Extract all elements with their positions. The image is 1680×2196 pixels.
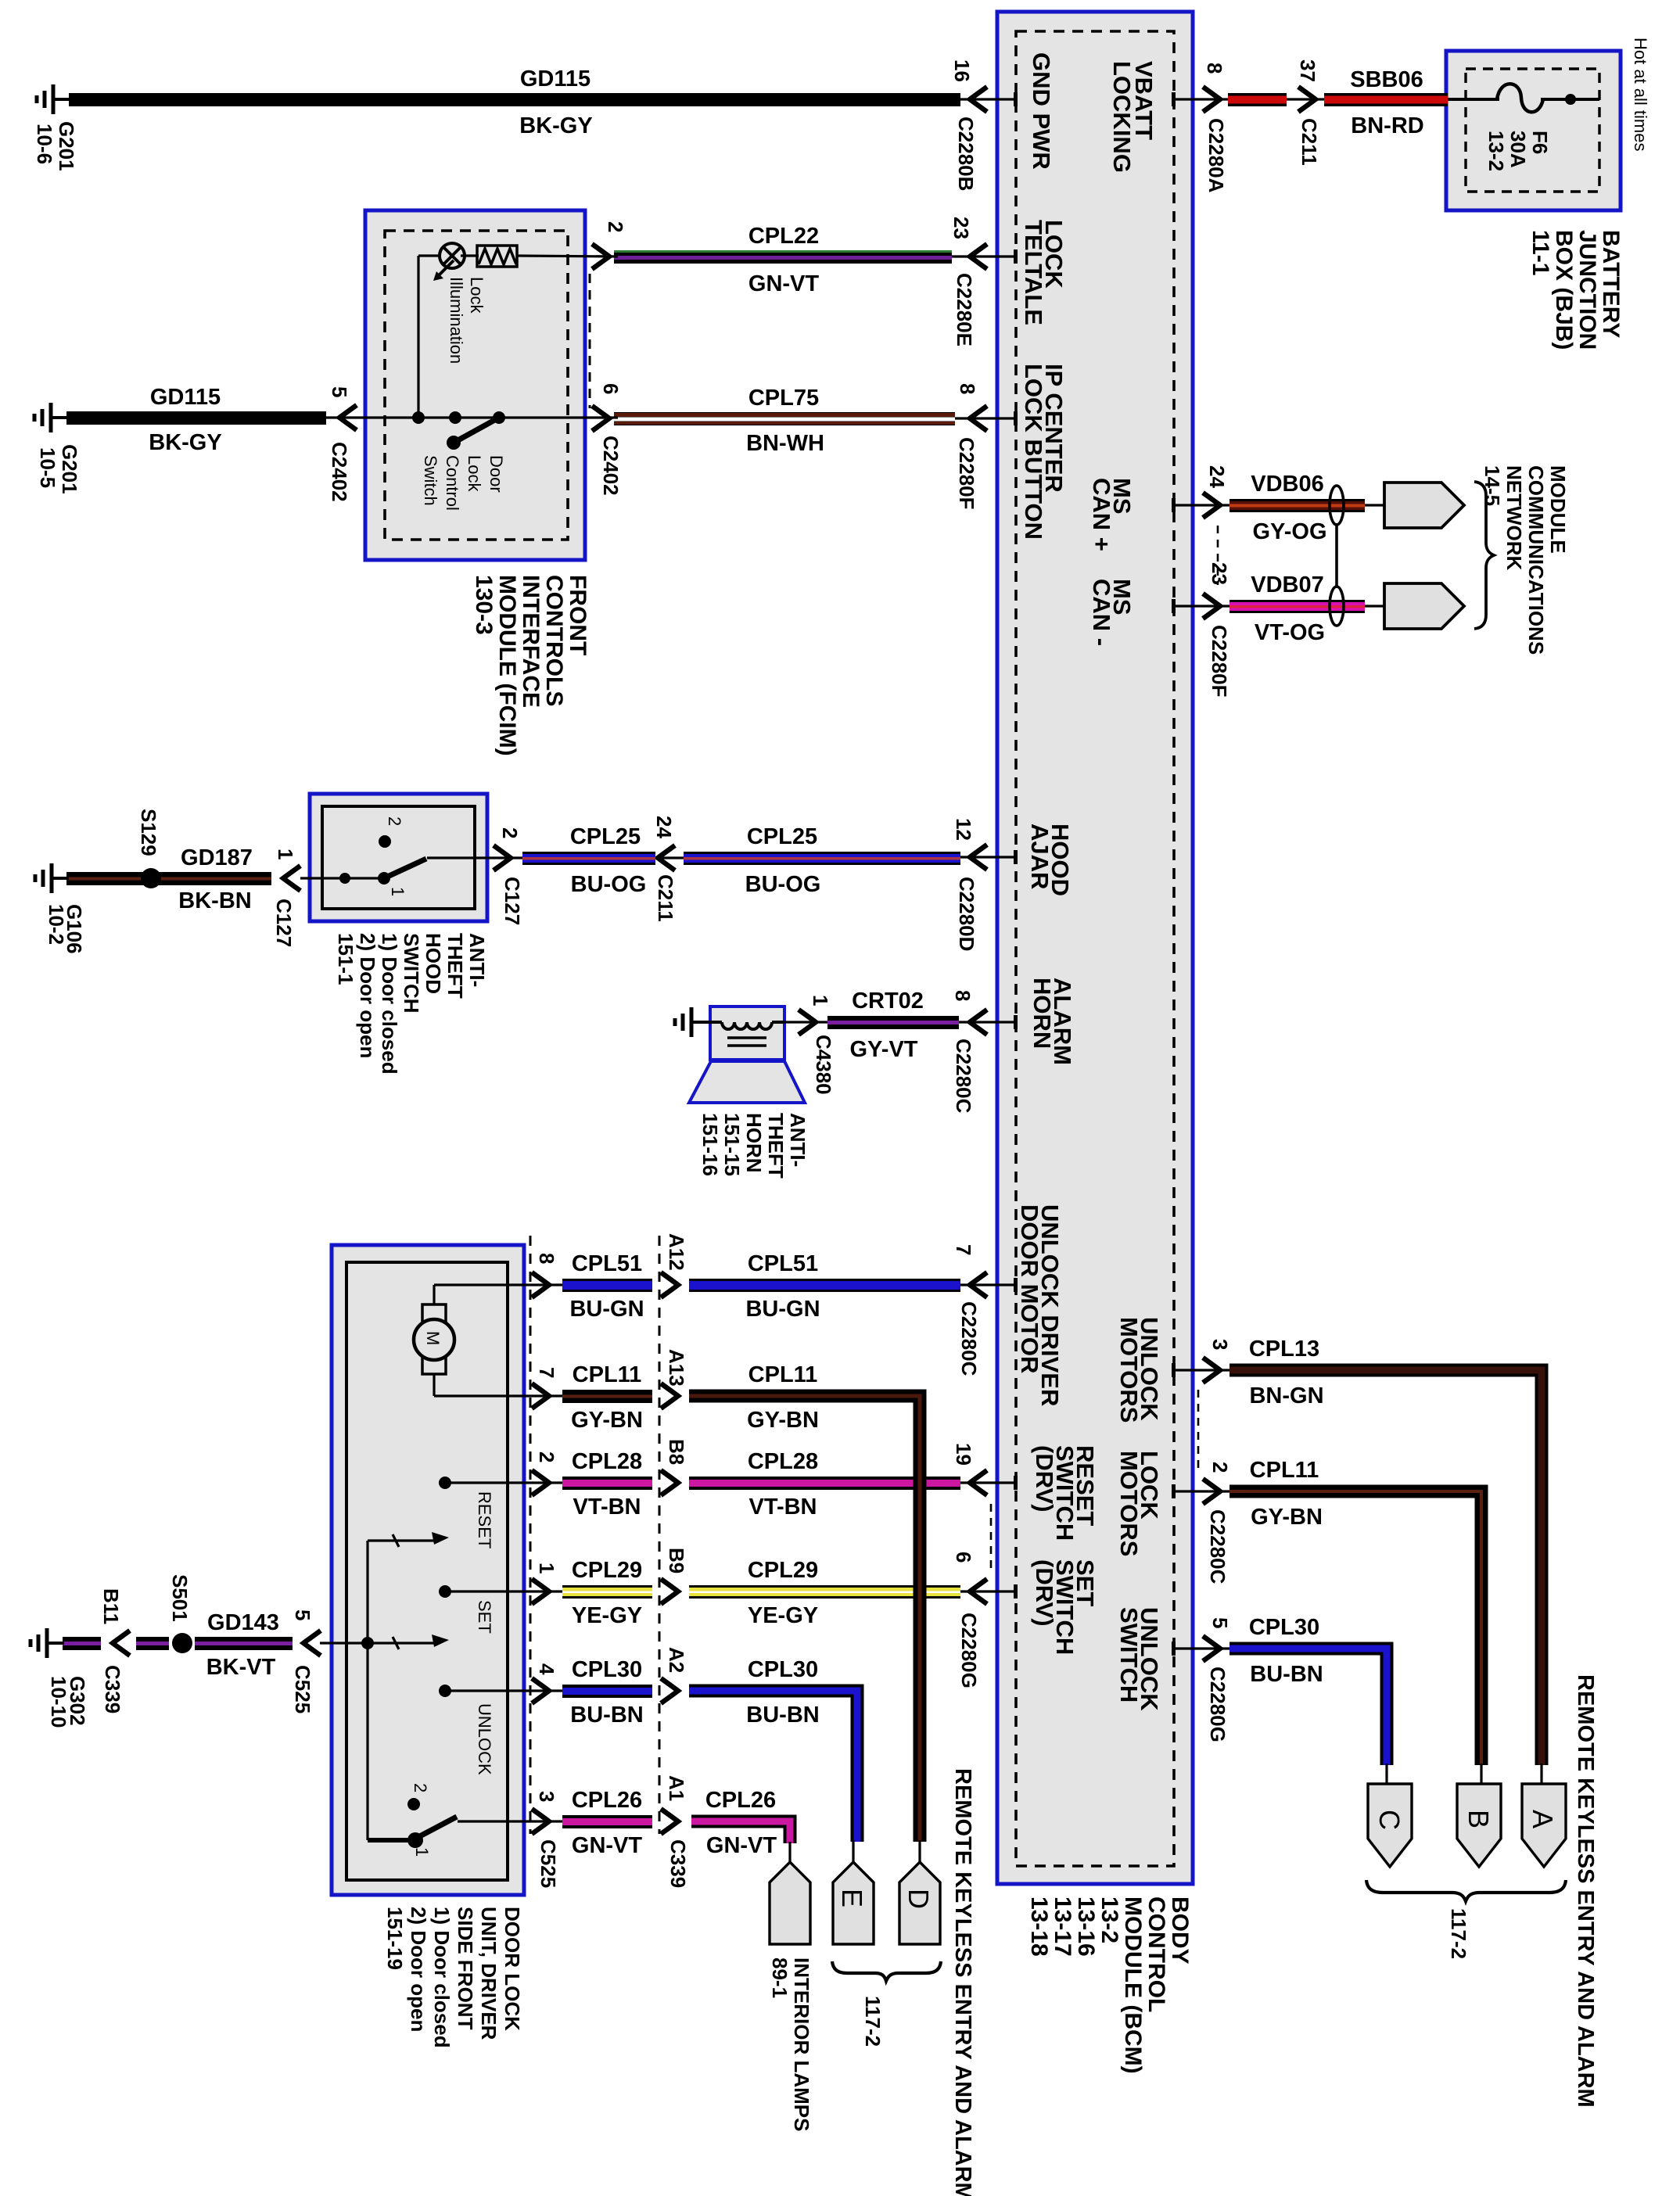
- svg-text:INTERFACE: INTERFACE: [518, 575, 544, 708]
- interior lamps pod: [788, 1842, 791, 1864]
- dashed C2280G link: [990, 1504, 993, 1570]
- svg-text:13-16: 13-16: [1073, 1896, 1099, 1957]
- svg-text:BN-RD: BN-RD: [1351, 113, 1423, 138]
- svg-text:CPL22: CPL22: [748, 224, 819, 249]
- svg-text:CPL30: CPL30: [572, 1657, 642, 1682]
- pin 3 UNLOCK MOTORS: [1172, 1369, 1229, 1371]
- wire CPL30 BU-BN elbow down to C: [1229, 1649, 1387, 1765]
- wire CPL13 BN-GN elbow down to A: [1229, 1370, 1542, 1765]
- svg-text:CPL29: CPL29: [572, 1558, 642, 1583]
- svg-text:GN-VT: GN-VT: [706, 1833, 777, 1858]
- pin 16 C2280B: [960, 98, 1016, 100]
- svg-text:YE-GY: YE-GY: [572, 1603, 642, 1628]
- svg-text:BN-GN: BN-GN: [1249, 1383, 1323, 1408]
- svg-text:2: 2: [498, 827, 522, 838]
- svg-text:CPL25: CPL25: [570, 824, 641, 849]
- svg-text:CRT02: CRT02: [852, 989, 924, 1014]
- svg-text:CPL29: CPL29: [748, 1558, 818, 1583]
- pin 23 C2280E LOCK TELTALE: [952, 255, 1016, 257]
- svg-text:F6: F6: [1528, 131, 1552, 154]
- svg-text:C211: C211: [654, 874, 677, 922]
- svg-text:BU-BN: BU-BN: [746, 1703, 819, 1728]
- svg-text:A13: A13: [665, 1349, 688, 1387]
- label: Hot at all times: [1631, 38, 1650, 152]
- svg-text:GN-VT: GN-VT: [572, 1833, 643, 1858]
- wire CPL51 BU-GN (1): [562, 1279, 652, 1292]
- svg-text:ANTI-: ANTI-: [786, 1113, 809, 1167]
- svg-text:COMMUNICATIONS: COMMUNICATIONS: [1524, 465, 1548, 655]
- svg-text:C2280A: C2280A: [1204, 118, 1228, 193]
- label: battery junction box: [1598, 230, 1624, 338]
- svg-text:5: 5: [291, 1609, 314, 1620]
- svg-text:2: 2: [535, 1451, 558, 1462]
- svg-text:NETWORK: NETWORK: [1502, 465, 1526, 571]
- pin 7 C2280C: [960, 1283, 1016, 1286]
- svg-text:10-6: 10-6: [33, 124, 56, 164]
- svg-text:C339: C339: [101, 1665, 124, 1713]
- wire CPL25 BU-OG (2): [684, 852, 960, 865]
- lock illumination lamp: [440, 243, 465, 268]
- BCM module box: [997, 12, 1193, 1884]
- wire CPL51 BU-GN (2): [689, 1279, 960, 1292]
- svg-text:C: C: [1373, 1810, 1405, 1830]
- network pod 1: [1365, 504, 1384, 506]
- svg-text:B9: B9: [665, 1548, 688, 1573]
- dashed C2280C link: [1197, 1390, 1200, 1472]
- horn ground: [691, 1021, 709, 1024]
- svg-text:INTERIOR LAMPS: INTERIOR LAMPS: [790, 1957, 813, 2131]
- svg-text:A2: A2: [665, 1647, 688, 1673]
- svg-text:2: 2: [385, 816, 404, 826]
- svg-text:BU-GN: BU-GN: [569, 1297, 644, 1322]
- svg-text:A: A: [1527, 1810, 1559, 1828]
- svg-text:G201: G201: [58, 444, 81, 494]
- svg-text:13-2: 13-2: [1097, 1896, 1122, 1943]
- splice S501: [172, 1633, 192, 1653]
- svg-text:130-3: 130-3: [471, 575, 497, 635]
- svg-text:37: 37: [1296, 59, 1319, 82]
- svg-text:GD115: GD115: [520, 66, 591, 91]
- svg-text:BU-BN: BU-BN: [1250, 1662, 1323, 1687]
- brace: [1474, 482, 1494, 629]
- wire CPL29 YE-GY (1): [562, 1585, 652, 1599]
- svg-text:C211: C211: [1298, 118, 1321, 166]
- svg-text:1: 1: [535, 1563, 558, 1573]
- horn coil: [693, 1021, 722, 1024]
- svg-text:CONTROLS: CONTROLS: [541, 575, 567, 706]
- svg-text:REMOTE KEYLESS ENTRY AND ALARM: REMOTE KEYLESS ENTRY AND ALARM: [950, 1768, 975, 2196]
- svg-text:10-5: 10-5: [36, 447, 59, 488]
- svg-text:30A: 30A: [1506, 131, 1530, 168]
- connector C339 A12: [661, 1272, 678, 1297]
- ground G302 10-10: [47, 1642, 64, 1645]
- svg-text:16: 16: [950, 59, 974, 82]
- svg-text:89-1: 89-1: [768, 1957, 792, 1998]
- svg-text:SBB06: SBB06: [1350, 67, 1423, 92]
- splice S129: [141, 868, 161, 888]
- door lock unit label: [501, 1907, 524, 2031]
- svg-text:A1: A1: [665, 1775, 688, 1801]
- connector C211 pin 24: [655, 856, 684, 859]
- label remote keyless (bottom): [950, 1768, 975, 2196]
- svg-text:1) Door closed: 1) Door closed: [378, 933, 401, 1075]
- hood switch internals: [300, 877, 384, 879]
- svg-text:B: B: [1463, 1810, 1495, 1828]
- svg-text:151-1: 151-1: [334, 933, 357, 985]
- svg-text:GD115: GD115: [150, 385, 221, 410]
- connector C211 pin 37: [1287, 98, 1326, 100]
- svg-text:8: 8: [956, 383, 979, 394]
- svg-text:GY-BN: GY-BN: [747, 1408, 819, 1433]
- svg-text:SIDE FRONT: SIDE FRONT: [454, 1907, 477, 2030]
- svg-text:S129: S129: [137, 809, 160, 856]
- svg-text:C2280B: C2280B: [954, 117, 978, 191]
- door unit pin 3 C525: [458, 1820, 562, 1822]
- svg-text:CPL26: CPL26: [572, 1788, 642, 1813]
- svg-text:B8: B8: [665, 1439, 688, 1465]
- svg-text:BU-OG: BU-OG: [745, 872, 821, 897]
- svg-text:10-2: 10-2: [45, 904, 68, 945]
- FCIM inner dashed box: [385, 231, 568, 540]
- svg-text:MODULE: MODULE: [1546, 465, 1570, 554]
- wire CPL25 BU-OG (1): [522, 852, 655, 865]
- svg-text:C2280D: C2280D: [955, 877, 978, 951]
- svg-text:Lock: Lock: [465, 455, 484, 492]
- svg-text:LOCKING: LOCKING: [1108, 61, 1136, 173]
- hood switch label: [465, 933, 489, 987]
- svg-text:Switch: Switch: [421, 455, 440, 506]
- svg-text:2: 2: [604, 221, 627, 232]
- svg-text:1) Door closed: 1) Door closed: [430, 1907, 454, 2048]
- svg-text:CPL11: CPL11: [573, 1362, 642, 1387]
- hood switch pin 2 C127: [427, 856, 522, 859]
- FCIM pin 6: [592, 406, 609, 431]
- svg-text:2: 2: [1208, 1462, 1232, 1473]
- horn pin 1 C4380: [784, 1021, 827, 1023]
- svg-text:23: 23: [1208, 562, 1231, 585]
- svg-text:D: D: [903, 1889, 935, 1909]
- brace 117-2 (ABC): [1366, 1880, 1566, 1901]
- door unit common bus: [320, 1642, 368, 1644]
- svg-text:CPL25: CPL25: [747, 824, 817, 849]
- wire CPL29 YE-GY (2): [689, 1585, 960, 1599]
- wire CPL75 BN-WH: [614, 412, 955, 425]
- pin 6 SET SWITCH: [960, 1590, 1016, 1592]
- FCIM module box: [365, 210, 585, 560]
- svg-text:14-5: 14-5: [1481, 465, 1504, 506]
- svg-text:151-15: 151-15: [720, 1113, 744, 1176]
- FCIM pin 2 C2402: [517, 256, 618, 257]
- BCM label: [1167, 1896, 1193, 1965]
- svg-text:C2280E: C2280E: [953, 273, 976, 346]
- svg-text:BU-GN: BU-GN: [745, 1297, 820, 1322]
- svg-text:7: 7: [952, 1244, 975, 1255]
- svg-text:5: 5: [1208, 1617, 1232, 1628]
- svg-text:BK-BN: BK-BN: [178, 888, 251, 913]
- svg-text:G201: G201: [55, 121, 78, 171]
- svg-text:117-2: 117-2: [1447, 1908, 1470, 1959]
- svg-text:HORN: HORN: [1028, 978, 1056, 1049]
- FCIM pin 5 C2402: [326, 416, 422, 418]
- svg-text:C2280G: C2280G: [1206, 1667, 1229, 1742]
- svg-text:CPL13: CPL13: [1249, 1337, 1319, 1362]
- svg-text:M: M: [423, 1331, 443, 1345]
- pin 8 C2280F: [955, 417, 1016, 419]
- svg-text:SET: SET: [475, 1600, 494, 1634]
- svg-text:2: 2: [411, 1783, 430, 1792]
- svg-text:DOOR MOTOR: DOOR MOTOR: [1016, 1204, 1043, 1373]
- svg-text:THEFT: THEFT: [443, 933, 467, 999]
- svg-text:HORN: HORN: [742, 1113, 766, 1173]
- svg-text:UNIT, DRIVER: UNIT, DRIVER: [477, 1907, 501, 2040]
- fuse F6 30A 13-2: [1448, 98, 1499, 101]
- wire CRT02 GY-VT: [827, 1016, 959, 1029]
- wire CPL26 GN-VT (2) elbow: [691, 1821, 790, 1843]
- svg-text:UNLOCK: UNLOCK: [475, 1703, 494, 1775]
- svg-text:MODULE (FCIM): MODULE (FCIM): [494, 575, 520, 756]
- svg-text:(DRV): (DRV): [1031, 1559, 1058, 1627]
- svg-text:19: 19: [952, 1443, 975, 1466]
- svg-text:11-1: 11-1: [1527, 230, 1553, 275]
- svg-text:CONTROL: CONTROL: [1143, 1896, 1169, 2012]
- wire CPL11 GY-BN (1): [562, 1390, 652, 1403]
- svg-text:REMOTE KEYLESS ENTRY AND ALARM: REMOTE KEYLESS ENTRY AND ALARM: [1573, 1674, 1598, 2108]
- pin 19 RESET SWITCH: [960, 1481, 1016, 1484]
- door unit RESET contact: [445, 1481, 562, 1484]
- svg-text:1: 1: [388, 887, 407, 896]
- svg-text:10-10: 10-10: [47, 1676, 70, 1728]
- svg-text:DOOR LOCK: DOOR LOCK: [501, 1907, 524, 2031]
- pin 2 LOCK MOTORS: [1172, 1490, 1229, 1492]
- svg-text:GY-BN: GY-BN: [1251, 1505, 1323, 1530]
- wire CPL28 VT-BN (2): [689, 1477, 960, 1490]
- svg-text:RESET: RESET: [475, 1491, 494, 1548]
- svg-text:GND PWR: GND PWR: [1028, 52, 1055, 170]
- svg-text:6: 6: [599, 383, 623, 394]
- svg-text:ANTI-: ANTI-: [465, 933, 489, 987]
- svg-text:13-18: 13-18: [1026, 1896, 1052, 1957]
- svg-text:23: 23: [949, 217, 973, 239]
- door unit UNLOCK contact: [445, 1689, 562, 1692]
- svg-text:SWITCH: SWITCH: [400, 933, 423, 1014]
- svg-text:VT-OG: VT-OG: [1255, 620, 1325, 645]
- svg-text:C2402: C2402: [599, 436, 623, 496]
- wire CPL30 BU-BN (1): [562, 1685, 652, 1698]
- svg-text:LOCK BUTTON: LOCK BUTTON: [1020, 364, 1047, 540]
- svg-text:Door: Door: [486, 455, 506, 493]
- ground G106 10-2: [52, 877, 69, 880]
- svg-text:8: 8: [951, 990, 975, 1001]
- twisted pair symbol: [1330, 486, 1344, 525]
- C2402 dashed link: [589, 274, 591, 408]
- svg-text:3: 3: [1208, 1339, 1232, 1350]
- svg-text:VDB06: VDB06: [1251, 472, 1324, 497]
- svg-text:151-19: 151-19: [383, 1907, 407, 1970]
- connector pod E: [852, 1840, 854, 1864]
- blade contacts 1 / 2: [407, 1832, 423, 1848]
- svg-text:C339: C339: [666, 1839, 690, 1888]
- svg-text:YE-GY: YE-GY: [748, 1603, 818, 1628]
- svg-text:Hot at all times: Hot at all times: [1631, 38, 1650, 152]
- svg-text:THEFT: THEFT: [764, 1113, 788, 1179]
- svg-text:BK-GY: BK-GY: [149, 430, 221, 455]
- wire segment: [136, 1637, 169, 1650]
- BCM inner dashed box: [1016, 31, 1174, 1866]
- wire GD143 BK-VT: [195, 1637, 293, 1650]
- svg-text:S501: S501: [168, 1574, 192, 1622]
- wire CPL26 GN-VT (1): [562, 1815, 652, 1828]
- svg-text:TELTALE: TELTALE: [1020, 220, 1047, 325]
- dashed C525 line: [529, 1236, 532, 1834]
- svg-text:CPL51: CPL51: [748, 1251, 818, 1276]
- svg-text:CPL75: CPL75: [748, 386, 819, 411]
- svg-text:C2280C: C2280C: [1206, 1509, 1229, 1584]
- svg-text:A12: A12: [665, 1233, 688, 1271]
- svg-text:3: 3: [535, 1791, 558, 1802]
- svg-text:B11: B11: [99, 1588, 123, 1624]
- brace 117-2 (DE): [832, 1961, 941, 1981]
- svg-text:13-17: 13-17: [1050, 1896, 1075, 1957]
- wire CPL30 BU-BN (2) elbow down to E: [689, 1691, 857, 1842]
- dashed C339 line: [659, 1236, 661, 1834]
- ground G201 10-6: [53, 98, 70, 101]
- ground G201 10-5: [51, 416, 68, 419]
- svg-text:5: 5: [328, 386, 351, 397]
- connector C339 B11: [113, 1631, 130, 1656]
- svg-text:E: E: [836, 1889, 868, 1907]
- svg-text:FRONT: FRONT: [565, 575, 591, 655]
- svg-text:BOX (BJB): BOX (BJB): [1551, 230, 1577, 350]
- svg-text:24: 24: [652, 816, 676, 838]
- svg-text:1: 1: [274, 849, 297, 859]
- wire SBB06 BN-RD: [1324, 93, 1448, 106]
- svg-text:GY-BN: GY-BN: [571, 1408, 643, 1433]
- connector pod A: [1540, 1764, 1542, 1785]
- lock illumination resistor: [477, 246, 517, 267]
- svg-text:Control: Control: [443, 455, 462, 511]
- door unit SET contact: [445, 1590, 562, 1592]
- svg-text:BK-GY: BK-GY: [519, 113, 592, 138]
- svg-text:C525: C525: [537, 1839, 560, 1888]
- connector C339 B8: [661, 1470, 678, 1495]
- svg-text:CPL11: CPL11: [1250, 1458, 1319, 1483]
- wire segment to ground: [63, 1637, 101, 1650]
- svg-text:SWITCH: SWITCH: [1115, 1607, 1143, 1703]
- svg-text:CPL30: CPL30: [1249, 1615, 1319, 1640]
- label remote keyless (right): [1573, 1674, 1598, 2108]
- anti-theft hood switch box: [310, 794, 487, 921]
- door unit pin 7: [434, 1394, 562, 1397]
- svg-text:1: 1: [412, 1847, 432, 1857]
- svg-text:HOOD: HOOD: [422, 933, 445, 994]
- pin 5 UNLOCK SWITCH: [1172, 1647, 1229, 1649]
- svg-text:CAN -: CAN -: [1088, 579, 1115, 646]
- svg-text:C4380: C4380: [812, 1035, 835, 1095]
- pin 12 C2280D HOOD AJAR: [960, 856, 1016, 858]
- svg-text:GY-OG: GY-OG: [1252, 519, 1326, 544]
- wire CPL22 GN-VT: [614, 250, 952, 264]
- svg-text:C2280C: C2280C: [952, 1039, 975, 1114]
- svg-text:151-16: 151-16: [698, 1113, 722, 1176]
- svg-text:VT-BN: VT-BN: [573, 1494, 641, 1520]
- connector C339 A2: [661, 1678, 678, 1703]
- svg-text:AJAR: AJAR: [1026, 823, 1054, 889]
- wire CPL28 VT-BN (1): [562, 1477, 652, 1490]
- svg-text:2) Door open: 2) Door open: [356, 933, 379, 1058]
- svg-text:BN-WH: BN-WH: [746, 431, 824, 456]
- svg-text:8: 8: [535, 1253, 558, 1264]
- svg-text:CAN +: CAN +: [1088, 478, 1115, 551]
- svg-text:2) Door open: 2) Door open: [407, 1907, 430, 2032]
- svg-text:24: 24: [1205, 465, 1229, 488]
- wire GD115 BK-GY: [69, 93, 960, 106]
- svg-text:12: 12: [952, 818, 975, 841]
- connector pod D: [918, 1840, 921, 1864]
- connector C339 A13: [661, 1383, 678, 1408]
- connector pod B: [1480, 1764, 1482, 1785]
- switch blade: [454, 418, 499, 443]
- anti-theft horn symbol: [710, 1006, 784, 1060]
- wire VDB07 VT-OG: [1229, 600, 1365, 613]
- svg-text:C2280F: C2280F: [955, 437, 978, 510]
- door lock unit box: [332, 1245, 524, 1895]
- svg-text:BU-OG: BU-OG: [571, 872, 647, 897]
- motor M: [422, 1304, 446, 1322]
- svg-text:CPL28: CPL28: [748, 1449, 818, 1474]
- svg-text:CPL26: CPL26: [705, 1788, 776, 1813]
- pin 8 C2280A VBATT: [1130, 61, 1158, 140]
- svg-text:117-2: 117-2: [861, 1996, 885, 2047]
- svg-text:MOTORS: MOTORS: [1115, 1317, 1143, 1423]
- svg-text:GD187: GD187: [181, 845, 253, 870]
- pin 23 MS CAN-: [1172, 605, 1229, 607]
- door unit pin 5 C525: [303, 1631, 321, 1656]
- label module communications network: [1546, 465, 1570, 554]
- lamp branch: [417, 256, 419, 418]
- svg-text:4: 4: [535, 1663, 558, 1675]
- svg-text:C2402: C2402: [328, 442, 351, 502]
- wire GD187 BK-BN: [66, 872, 271, 885]
- svg-text:GN-VT: GN-VT: [748, 271, 820, 296]
- pin 24 MS CAN+: [1172, 504, 1229, 506]
- wire CPL11 GY-BN elbow down to B: [1229, 1491, 1481, 1765]
- connector pod C: [1385, 1764, 1387, 1785]
- svg-text:8: 8: [1203, 63, 1226, 74]
- pin 8 C2280C ALARM HORN: [959, 1021, 1016, 1023]
- svg-text:GY-VT: GY-VT: [849, 1037, 917, 1062]
- FCIM label: [565, 575, 591, 655]
- svg-text:CPL11: CPL11: [748, 1362, 818, 1387]
- svg-text:7: 7: [535, 1367, 558, 1378]
- hood switch pin 1 C127: [283, 866, 300, 891]
- svg-text:(DRV): (DRV): [1031, 1445, 1058, 1512]
- svg-text:VDB07: VDB07: [1251, 572, 1324, 597]
- svg-text:MODULE (BCM): MODULE (BCM): [1120, 1896, 1146, 2074]
- connector C339 B9: [661, 1579, 678, 1604]
- svg-text:BU-BN: BU-BN: [570, 1703, 643, 1728]
- svg-text:BATTERY: BATTERY: [1598, 230, 1624, 338]
- network pod 2: [1365, 605, 1384, 607]
- svg-text:MOTORS: MOTORS: [1115, 1451, 1143, 1557]
- svg-text:CPL30: CPL30: [748, 1657, 818, 1682]
- battery junction box (BJB): [1446, 51, 1621, 210]
- svg-text:C525: C525: [291, 1665, 314, 1713]
- svg-text:CPL51: CPL51: [572, 1251, 642, 1276]
- svg-text:CPL28: CPL28: [572, 1449, 642, 1474]
- svg-text:JUNCTION: JUNCTION: [1574, 230, 1600, 350]
- svg-text:C2280C: C2280C: [957, 1301, 981, 1376]
- dashed C2280F link: [1217, 526, 1219, 585]
